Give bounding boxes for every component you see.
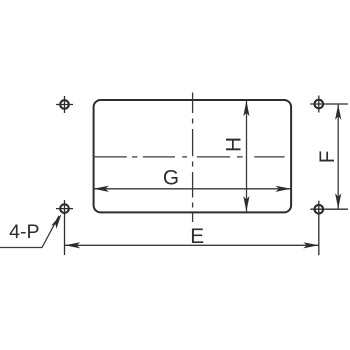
svg-text:4-P: 4-P bbox=[9, 221, 39, 243]
svg-text:F: F bbox=[316, 151, 339, 164]
svg-text:G: G bbox=[163, 167, 179, 190]
svg-text:E: E bbox=[190, 225, 204, 248]
svg-text:H: H bbox=[223, 137, 246, 152]
